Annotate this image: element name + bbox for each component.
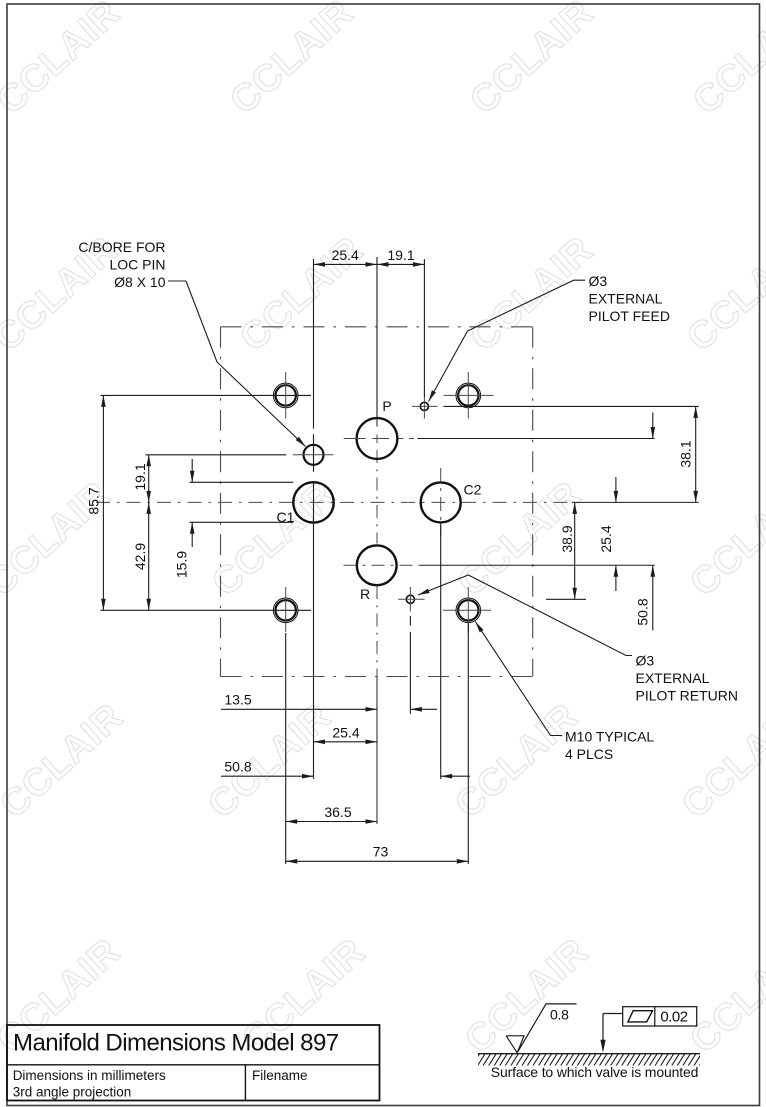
dimension 25.4 right [598,477,618,591]
extension lines left dims [101,395,312,610]
mounting hole M10 bottom-right [443,587,491,633]
svg-text:50.8: 50.8 [635,598,651,625]
svg-text:3rd angle projection: 3rd angle projection [13,1085,132,1100]
dimension 13.5 bottom [221,692,437,712]
svg-text:38.1: 38.1 [678,440,694,467]
svg-text:Dimensions in millimeters: Dimensions in millimeters [13,1068,166,1083]
svg-text:M10 TYPICAL: M10 TYPICAL [565,729,654,745]
surface roughness symbol 0.8 [506,1004,576,1053]
svg-text:25.4: 25.4 [598,525,614,552]
dimension 15.9 bore diameter [174,459,195,578]
dimension 85.7 left [86,395,106,610]
svg-text:Manifold Dimensions Model 897: Manifold Dimensions Model 897 [13,1030,339,1057]
svg-text:42.9: 42.9 [132,543,148,570]
svg-text:13.5: 13.5 [224,692,251,708]
hole P (pressure port) [344,418,414,459]
svg-text:Ø3: Ø3 [589,273,608,289]
leader diam 3 external pilot feed [429,273,670,402]
svg-text:50.8: 50.8 [224,759,251,775]
svg-text:25.4: 25.4 [332,725,359,741]
svg-text:Filename: Filename [252,1068,308,1083]
svg-text:P: P [382,398,391,414]
svg-text:0.02: 0.02 [660,1008,687,1025]
manifold outline (phantom) [221,327,533,677]
svg-text:EXTERNAL: EXTERNAL [636,670,710,686]
svg-text:19.1: 19.1 [132,463,148,490]
dimension 19.1 top [377,247,424,267]
svg-text:73: 73 [373,844,389,860]
leader diam 3 external pilot return [418,575,738,704]
svg-text:EXTERNAL: EXTERNAL [589,291,663,307]
dimension 38.1 right [678,406,699,502]
svg-text:Ø8 X 10: Ø8 X 10 [114,274,166,290]
mounting hole M10 bottom-left [273,587,298,632]
svg-text:LOC PIN: LOC PIN [109,257,165,273]
dimension 25.4 bottom [314,725,378,745]
hole C1 [293,482,333,522]
svg-text:PILOT FEED: PILOT FEED [589,308,670,324]
hole C2 [421,468,461,537]
dimension 73 bottom [286,844,469,864]
mounting hole M10 top-right [444,372,494,419]
centerline C1-C2 horizontal [96,501,699,503]
mounting hole M10 top-left [273,372,298,419]
svg-text:25.4: 25.4 [332,247,359,263]
svg-text:Ø3: Ø3 [636,653,655,669]
svg-text:85.7: 85.7 [86,487,102,514]
mounted surface line with hatch [472,1054,707,1066]
dimension 36.5 bottom [286,804,377,824]
extension lines bottom dims [286,522,469,864]
extension lines top dims [314,257,425,522]
svg-text:19.1: 19.1 [387,247,414,263]
dimension 19.1 left [132,455,151,503]
svg-text:15.9: 15.9 [174,551,190,578]
flatness feature control frame 0.02 [600,1007,696,1053]
pilot return hole (diam 3) [398,587,425,612]
leader M10 TYPICAL 4 PLCS [475,622,654,763]
dimension 50.8 right [635,413,656,631]
title block [7,1025,380,1101]
extension lines right dims [418,406,699,599]
svg-text:4 PLCS: 4 PLCS [565,746,613,762]
svg-text:C2: C2 [464,482,482,498]
centerline P-R vertical [376,257,378,824]
dimension 42.9 left [132,502,151,610]
svg-text:R: R [360,586,370,602]
dimension 38.9 right [559,502,577,599]
svg-text:38.9: 38.9 [559,525,575,552]
leader C/BORE FOR LOC PIN [78,239,305,447]
pilot feed hole (diam 3) [412,398,438,419]
svg-text:C/BORE FOR: C/BORE FOR [78,239,165,255]
loc pin counterbore hole [293,445,333,465]
dimension 50.8 bottom [221,759,470,779]
svg-text:36.5: 36.5 [324,804,351,820]
svg-text:PILOT RETURN: PILOT RETURN [636,688,738,704]
hole R (return port) [344,545,655,585]
dimension 25.4 top [314,247,378,267]
svg-text:0.8: 0.8 [550,1007,569,1023]
svg-text:Surface to which valve is moun: Surface to which valve is mounted [491,1064,699,1080]
